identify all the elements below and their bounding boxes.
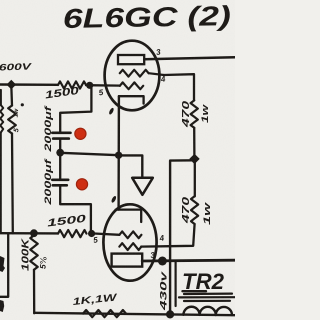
wire screen node to R4 (194, 160, 196, 196)
wire junction to C1 (60, 86, 91, 132)
resistor R6 100K (30, 235, 37, 270)
TR2 core lamination line 3 (184, 300, 230, 302)
scan artifact blob lower-left 1 (0, 256, 5, 272)
wire C1 to caps junction (59, 139, 61, 153)
resistor R3 470 (V1 screen) (191, 100, 198, 127)
arrow to output transformer (132, 178, 153, 195)
transformer TR2 box edge (175, 262, 177, 307)
TR2 label underline (183, 290, 207, 292)
capacitor C1 2000uf top plate (52, 132, 70, 135)
junction output rail node (166, 310, 174, 318)
junction V2 grid node (88, 230, 95, 237)
resistor R1 1500 (V1 grid stopper) (58, 81, 86, 88)
cathode of V1 (119, 96, 144, 103)
wire R3 to screen node (193, 128, 195, 159)
wire C2 to V2 grid node (60, 185, 91, 233)
cathode of V2 (116, 210, 142, 222)
pin mark 8 (V1 cathode) (108, 107, 114, 115)
wire cathode spine V1-V2 (117, 96, 120, 209)
wire R5 top lead (10, 85, 13, 105)
capacitor C2 2000uf top plate (52, 179, 68, 182)
wire V2 grid to pin5 node (92, 233, 120, 234)
TR2 core lamination line 2 (179, 296, 235, 298)
wire junction to V1 pin 5 (86, 84, 120, 87)
partial resistor at left edge (0, 90, 2, 105)
wire screen node down to output rail (170, 160, 194, 314)
capacitor C1 2000uf bottom plate (53, 137, 69, 140)
pin mark 1 (V2 cathode) (111, 195, 117, 203)
TR2 core lamination line 1 (184, 293, 232, 296)
control grid of V1 (120, 82, 143, 89)
junction 100K node (30, 229, 38, 237)
resistor R5 bleeder (left) (8, 106, 16, 134)
wire caps junction to cathode node (60, 153, 118, 155)
wire B+ rail to R1 (0, 83, 58, 86)
wire R6 to bottom rail (33, 270, 36, 313)
wire V2 screen row (141, 245, 170, 248)
junction node 600V rail (7, 80, 17, 90)
annotation dot on C2 (76, 179, 87, 190)
plate of V1 (118, 55, 144, 64)
wire left edge lead (0, 133, 2, 234)
wire off left edge (0, 234, 8, 297)
wire V1 screen grid to pin 4 (149, 73, 164, 75)
wire to output arrow (119, 155, 143, 177)
wire V2 grid rail (0, 232, 58, 235)
plate of V2 (112, 254, 143, 267)
wire V1 pin4 to R3 (164, 74, 194, 100)
junction caps node (56, 149, 64, 157)
wire R5 bottom lead (11, 134, 14, 234)
screen grid of V1 (120, 70, 149, 77)
annotation dot on C1 (75, 128, 86, 139)
wire bottom rail (34, 313, 235, 315)
resistor R2 1500 (V2 grid stopper) (58, 230, 87, 237)
screen grid of V2 (119, 243, 141, 250)
scan artifact blob lower-left 2 (0, 300, 4, 312)
TR2 primary winding (183, 307, 232, 315)
junction screen supply node (189, 154, 199, 164)
resistor R4 470 (V2 screen) (191, 196, 198, 224)
partial resistor zigzag left edge (0, 105, 3, 133)
junction cathode node (115, 152, 122, 159)
capacitor C2 2000uf bottom plate (53, 184, 67, 187)
wire R4 bottom to V2 screen row (170, 224, 195, 246)
resistor R7 1K 1W (83, 310, 126, 317)
tube V1 6L6GC envelope (105, 41, 160, 111)
junction V2 plate node (158, 257, 167, 266)
wire V1 plate to right edge (144, 57, 235, 59)
wire caps junction to C2 (59, 153, 61, 180)
tube V2 6L6GC envelope (103, 204, 156, 280)
junction V1 grid node (86, 82, 93, 89)
wire V2 plate to TR2 (142, 259, 235, 263)
control grid of V2 (119, 231, 141, 238)
